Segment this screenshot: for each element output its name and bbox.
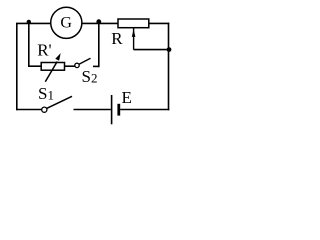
- wire bottom-left segment: [16, 109, 42, 111]
- wire dot2 to R: [82, 22, 118, 24]
- rheostat R body: [118, 19, 149, 28]
- wire S2 right contact: [93, 65, 99, 67]
- galvanometer G: [51, 7, 82, 38]
- wire S1 to battery: [74, 109, 111, 111]
- svg-text:S2: S2: [82, 67, 98, 86]
- svg-text:S1: S1: [38, 84, 54, 103]
- svg-text:R: R: [111, 29, 123, 48]
- wire top-right segment: [149, 22, 170, 24]
- junction node wiper/right-vertical: [167, 47, 172, 52]
- svg-text:G: G: [60, 14, 72, 31]
- switch S1: [42, 96, 72, 112]
- wire left vertical: [16, 23, 18, 111]
- wire right vertical: [168, 23, 170, 111]
- svg-text:R': R': [37, 40, 51, 59]
- wire S2 contact up to dot2: [98, 22, 100, 67]
- battery E: [112, 95, 119, 124]
- wire R' to S2: [65, 65, 75, 67]
- wire branch left vertical: [28, 22, 30, 66]
- wire branch to R': [28, 65, 41, 67]
- arrow of R': [45, 53, 60, 82]
- wire battery to bottom-right corner: [120, 109, 169, 111]
- wire wiper to right vertical: [134, 49, 170, 51]
- rheostat R' body: [41, 63, 64, 71]
- junction node left (dot1): [27, 20, 31, 24]
- svg-text:E: E: [122, 88, 132, 107]
- switch S2: [75, 58, 91, 67]
- wire top-left segment: [17, 22, 51, 24]
- junction node right (dot2): [96, 19, 101, 24]
- wiper arrow of R: [132, 27, 136, 50]
